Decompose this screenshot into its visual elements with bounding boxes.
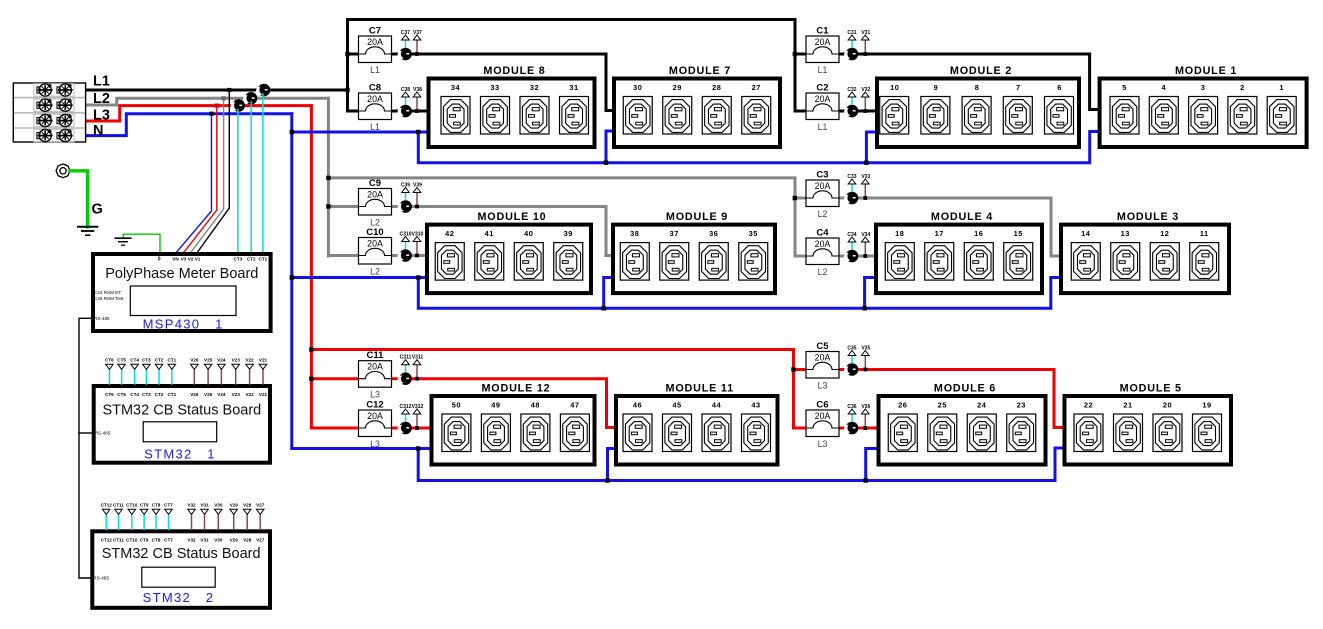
wire CT9 board2	[143, 515, 145, 530]
junction N bus module 2	[864, 161, 868, 165]
svg-text:27: 27	[752, 83, 761, 92]
svg-text:4: 4	[1161, 83, 1166, 92]
svg-text:32: 32	[530, 83, 539, 92]
svg-text:STM32 CB Status Board: STM32 CB Status Board	[102, 546, 261, 562]
outlet 28	[702, 83, 731, 134]
wire V21 board1	[262, 370, 264, 385]
svg-text:2: 2	[1240, 83, 1245, 92]
outlet 17	[925, 229, 954, 280]
outlet 26	[888, 400, 917, 451]
CT sensor on C4 output	[844, 250, 858, 263]
terminal screw L2 left	[37, 99, 53, 111]
svg-text:C1: C1	[816, 26, 829, 37]
outlet 39	[554, 229, 583, 280]
wire CT2 sense	[250, 102, 252, 253]
svg-text:V29: V29	[230, 537, 239, 542]
svg-text:STM32 CB Status Board: STM32 CB Status Board	[102, 403, 261, 419]
outlet 12	[1150, 229, 1179, 280]
svg-text:CT3: CT3	[142, 392, 151, 397]
junction V36 tap	[863, 426, 867, 430]
svg-text:C12: C12	[366, 400, 383, 411]
CT sensor on C5 output	[844, 363, 858, 376]
CT sensor on C8 output	[398, 105, 412, 118]
net label V26	[190, 358, 199, 370]
svg-text:L2: L2	[818, 209, 828, 219]
svg-text:V26: V26	[190, 392, 199, 397]
net label V38	[413, 87, 422, 97]
CT wire C33	[851, 184, 853, 192]
CT wire C310	[405, 242, 407, 250]
svg-text:V32: V32	[187, 537, 196, 542]
svg-text:L1: L1	[818, 65, 828, 75]
svg-text:V22: V22	[246, 358, 255, 363]
CT sensor on C12 output	[398, 422, 412, 435]
svg-text:20A: 20A	[367, 189, 383, 199]
CT wire C34	[851, 242, 853, 250]
svg-text:CT10: CT10	[126, 537, 138, 542]
junction N row1 tap	[290, 130, 294, 134]
voltage tap wire V35	[864, 356, 866, 370]
svg-text:CT8: CT8	[152, 503, 161, 508]
svg-text:V24: V24	[217, 392, 226, 397]
CT sensor on C11 output	[398, 372, 412, 385]
svg-text:20A: 20A	[367, 362, 383, 372]
svg-text:CT1: CT1	[259, 257, 268, 262]
wire L1 feeder rail to C1/C2	[348, 20, 796, 112]
outlet 40	[514, 229, 543, 280]
svg-text:MSP430 1: MSP430 1	[143, 317, 224, 332]
net label V30	[214, 503, 223, 515]
svg-text:C312: C312	[400, 404, 412, 410]
outlet 47	[560, 400, 589, 451]
outlet 34	[441, 83, 470, 134]
wire ground green	[70, 171, 88, 227]
svg-text:MODULE 5: MODULE 5	[1120, 383, 1182, 395]
voltage tap wire V33	[864, 184, 866, 198]
terminal block TB1 (mains input)	[13, 83, 85, 142]
svg-text:CT3: CT3	[234, 257, 243, 262]
wire V32 board2	[191, 515, 193, 530]
svg-text:MODULE 9: MODULE 9	[666, 211, 728, 223]
svg-text:MODULE 10: MODULE 10	[478, 211, 547, 223]
outlet 13	[1111, 229, 1140, 280]
junction V310 tap	[415, 254, 419, 258]
wire V30 board2	[217, 515, 219, 530]
junction V33 tap	[863, 196, 867, 200]
net label V32	[861, 87, 870, 97]
net label V24	[217, 358, 226, 370]
svg-text:MODULE 4: MODULE 4	[931, 211, 993, 223]
wire V31 board2	[204, 515, 206, 530]
net label CT4	[130, 358, 139, 370]
svg-text:V32: V32	[861, 87, 870, 93]
junction N row3 drop	[416, 446, 420, 450]
svg-text:37: 37	[670, 229, 679, 238]
junction C7 tap	[345, 52, 349, 56]
svg-text:L1: L1	[370, 122, 380, 132]
junction V2 tap on L2	[222, 96, 226, 100]
svg-text:5: 5	[1122, 83, 1127, 92]
svg-text:CT6: CT6	[105, 392, 114, 397]
svg-text:C7: C7	[369, 26, 381, 37]
svg-text:MODULE 1: MODULE 1	[1175, 65, 1237, 77]
net label V29	[230, 503, 239, 515]
net label CT6	[105, 358, 114, 370]
junction C11 tap	[309, 377, 313, 381]
outlet 3	[1189, 83, 1218, 134]
svg-text:RS-485: RS-485	[94, 316, 110, 321]
wire CT1 sense	[262, 94, 264, 253]
wire CT10 board2	[131, 515, 133, 530]
svg-text:MODULE 12: MODULE 12	[482, 383, 551, 395]
wire V29 board2	[233, 515, 235, 530]
wire V1 sense	[197, 90, 229, 253]
svg-text:V25: V25	[204, 358, 213, 363]
svg-text:C10: C10	[366, 227, 383, 238]
outlet 44	[702, 400, 731, 451]
svg-text:CT7: CT7	[164, 537, 173, 542]
svg-text:L2: L2	[818, 267, 828, 277]
net label V31	[200, 503, 209, 515]
svg-text:40: 40	[524, 229, 533, 238]
svg-text:CT9: CT9	[140, 503, 149, 508]
wire N row2 branch to MODULE 10	[292, 276, 428, 279]
svg-text:PolyPhase Meter Board: PolyPhase Meter Board	[105, 266, 258, 282]
net label V311	[412, 355, 424, 365]
wire C12 branch to MODULE 12	[311, 427, 432, 430]
voltage tap wire V312	[416, 414, 418, 428]
svg-text:C25 RSM Test: C25 RSM Test	[94, 296, 124, 301]
voltage tap wire V310	[416, 242, 418, 256]
net label V28	[243, 503, 252, 515]
svg-text:14: 14	[1081, 229, 1091, 238]
voltage tap wire V311	[416, 365, 418, 379]
net label C31	[847, 30, 856, 40]
svg-text:V27: V27	[256, 537, 265, 542]
net label C312	[400, 404, 412, 414]
svg-text:9: 9	[934, 83, 939, 92]
net label C37	[401, 30, 410, 40]
svg-text:V2: V2	[188, 257, 194, 262]
junction L2 rail tap	[326, 176, 330, 180]
wire RS-485 bus	[79, 318, 91, 578]
svg-text:34: 34	[451, 83, 461, 92]
svg-text:C39: C39	[401, 183, 410, 189]
wire CT11 board2	[118, 515, 120, 530]
board PolyPhase Meter Board (MSP430 1)	[93, 254, 271, 331]
net label C33	[847, 174, 856, 184]
wire VN sense	[176, 114, 212, 253]
wire N drop MODULE 11	[608, 449, 618, 481]
svg-text:20A: 20A	[367, 37, 383, 47]
svg-text:CT7: CT7	[164, 503, 173, 508]
svg-text:V22: V22	[246, 392, 255, 397]
CT wire C38	[405, 97, 407, 105]
svg-text:MODULE 7: MODULE 7	[669, 65, 731, 77]
outlet 14	[1071, 229, 1100, 280]
svg-text:17: 17	[935, 229, 944, 238]
outlet 27	[742, 83, 771, 134]
wire C1 branch to MODULE 1	[795, 54, 1100, 110]
junction N bus module 4	[862, 306, 866, 310]
wire CT5 board1	[121, 370, 123, 385]
circuit breaker C1 (20A, phase L1)	[806, 26, 839, 76]
svg-text:CT1: CT1	[167, 392, 176, 397]
svg-text:V31: V31	[200, 537, 209, 542]
wire CT8 board2	[155, 515, 157, 530]
svg-text:L3: L3	[818, 439, 828, 449]
module MODULE 3	[1061, 211, 1229, 293]
module MODULE 9	[613, 211, 775, 293]
wire N drop MODULE 7	[606, 131, 616, 163]
svg-text:20A: 20A	[815, 37, 831, 47]
wire CT7 board2	[168, 515, 170, 530]
svg-text:CT10: CT10	[126, 503, 138, 508]
CT sensor on C7 output	[398, 48, 412, 61]
STM32 2 component box	[142, 567, 215, 587]
net label C35	[847, 346, 856, 356]
svg-text:CT1: CT1	[167, 358, 176, 363]
wire C4 branch to MODULE 4	[795, 255, 877, 258]
svg-text:L1: L1	[818, 122, 828, 132]
svg-text:20: 20	[1163, 400, 1172, 409]
svg-text:CT4: CT4	[130, 358, 139, 363]
svg-text:C36: C36	[847, 404, 856, 410]
CT sensor on C6 output	[844, 422, 858, 435]
svg-text:C311: C311	[400, 355, 412, 361]
junction V31 tap	[863, 52, 867, 56]
terminal screw L3 right	[57, 115, 73, 127]
svg-text:13: 13	[1121, 229, 1130, 238]
svg-text:V26: V26	[190, 358, 199, 363]
svg-text:V21: V21	[259, 358, 268, 363]
wire CT6 board1	[108, 370, 110, 385]
net label C38	[401, 87, 410, 97]
outlet 7	[1003, 83, 1032, 134]
outlet 38	[620, 229, 649, 280]
svg-text:V30: V30	[214, 537, 223, 542]
wire meter ground	[123, 234, 160, 253]
wire C10 branch to MODULE 10	[328, 254, 428, 257]
terminal screw N right	[57, 130, 73, 142]
svg-text:29: 29	[673, 83, 682, 92]
svg-text:CT5: CT5	[117, 358, 126, 363]
circuit breaker C7 (20A, phase L1)	[359, 26, 392, 76]
svg-text:19: 19	[1202, 400, 1211, 409]
CT sensor on C1 output	[844, 48, 858, 61]
net label V31	[861, 30, 870, 40]
outlet 49	[481, 400, 510, 451]
circuit breaker C5 (20A, phase L3)	[806, 341, 839, 391]
voltage tap wire V34	[864, 242, 866, 256]
svg-text:CT11: CT11	[113, 503, 124, 508]
svg-text:L3: L3	[370, 390, 380, 400]
svg-text:C9: C9	[369, 178, 381, 189]
wire CT3 sense	[237, 110, 239, 253]
circuit breaker C3 (20A, phase L2)	[806, 170, 839, 220]
svg-text:CT9: CT9	[140, 537, 149, 542]
svg-text:RS-485: RS-485	[93, 576, 109, 581]
module MODULE 2	[877, 65, 1079, 147]
voltage tap wire V39	[416, 193, 418, 207]
svg-text:1: 1	[1279, 83, 1284, 92]
svg-text:L1: L1	[93, 74, 110, 90]
svg-text:C2: C2	[816, 83, 828, 94]
outlet 37	[660, 229, 689, 280]
svg-text:20A: 20A	[815, 411, 831, 421]
wire L2 bus from terminal	[66, 98, 328, 105]
svg-text:V31: V31	[861, 30, 870, 36]
junction V312 tap	[415, 426, 419, 430]
svg-text:V36: V36	[861, 404, 870, 410]
CT sensor CT2 on L2	[243, 92, 257, 105]
svg-text:CT8: CT8	[152, 537, 161, 542]
svg-text:50: 50	[452, 400, 461, 409]
wire V22 board1	[249, 370, 251, 385]
wire N drop MODULE 4	[865, 278, 877, 309]
outlet 8	[962, 83, 991, 134]
svg-text:7: 7	[1016, 83, 1021, 92]
outlet 11	[1190, 229, 1219, 280]
wire N row2 return bus	[418, 278, 1062, 309]
svg-text:MODULE 6: MODULE 6	[934, 383, 996, 395]
outlet 50	[442, 400, 471, 451]
svg-text:CT4: CT4	[130, 392, 139, 397]
svg-text:C3: C3	[816, 170, 828, 181]
outlet 45	[663, 400, 692, 451]
wire N drop MODULE 9	[604, 278, 615, 309]
svg-text:C8: C8	[369, 83, 381, 94]
svg-text:L3: L3	[93, 108, 110, 124]
wire C5 branch to MODULE 5	[794, 370, 1066, 428]
net label C34	[847, 232, 856, 242]
outlet 36	[699, 229, 728, 280]
svg-text:V1: V1	[195, 257, 201, 262]
module MODULE 10	[427, 211, 591, 293]
wire L3 vertical feeder	[310, 106, 313, 428]
svg-text:38: 38	[630, 229, 639, 238]
svg-text:CT11: CT11	[113, 537, 124, 542]
junction V311 tap	[415, 377, 419, 381]
svg-text:11: 11	[1200, 229, 1209, 238]
wire C9 branch to MODULE 9	[328, 207, 615, 256]
wire L3 feeder rail to C5/C6	[311, 350, 793, 429]
svg-text:20A: 20A	[815, 181, 831, 191]
junction N row2 drop	[416, 275, 420, 279]
svg-text:33: 33	[490, 83, 499, 92]
junction N bus module 11	[605, 478, 609, 482]
net label CT3	[142, 358, 151, 370]
svg-text:MODULE 2: MODULE 2	[950, 65, 1012, 77]
circuit breaker C4 (20A, phase L2)	[806, 228, 839, 278]
svg-text:V21: V21	[259, 392, 268, 397]
svg-text:42: 42	[445, 229, 454, 238]
svg-text:V29: V29	[230, 503, 239, 508]
wire C11 branch to MODULE 11	[311, 379, 617, 428]
svg-text:V24: V24	[217, 358, 226, 363]
svg-text:V31: V31	[200, 503, 209, 508]
wire L3 bus from terminal	[66, 106, 311, 121]
junction N bus module 7	[604, 161, 608, 165]
net label V35	[861, 346, 870, 356]
wire L2 vertical feeder	[327, 98, 330, 256]
junction C9 tap	[326, 204, 330, 208]
junction V3 tap on L3	[215, 104, 219, 108]
outlet 46	[623, 400, 652, 451]
CT sensor on C10 output	[398, 249, 412, 262]
svg-text:36: 36	[709, 229, 718, 238]
junction C3 tap	[793, 196, 797, 200]
wire V26 board1	[193, 370, 195, 385]
svg-text:C33: C33	[847, 174, 856, 180]
wire V2 sense	[191, 98, 224, 253]
svg-text:15: 15	[1014, 229, 1023, 238]
CT sensor CT1 on L1	[256, 84, 270, 97]
svg-text:L2: L2	[370, 218, 380, 228]
svg-text:16: 16	[974, 229, 983, 238]
outlet 23	[1007, 400, 1036, 451]
junction C5 tap	[791, 367, 795, 371]
svg-text:25: 25	[938, 400, 947, 409]
ground terminal screw	[56, 164, 70, 178]
net label C39	[401, 183, 410, 193]
svg-text:44: 44	[712, 400, 722, 409]
CT sensor on C9 output	[398, 200, 412, 213]
outlet 43	[742, 400, 771, 451]
svg-text:12: 12	[1160, 229, 1169, 238]
module MODULE 4	[876, 211, 1042, 293]
svg-text:V310: V310	[412, 232, 424, 238]
net label C36	[847, 404, 856, 414]
wire C7 branch to MODULE 7	[348, 54, 617, 111]
svg-text:CT3: CT3	[142, 358, 151, 363]
outlet 33	[481, 83, 510, 134]
svg-text:39: 39	[564, 229, 573, 238]
net label CT12	[101, 503, 113, 515]
svg-text:V28: V28	[243, 503, 252, 508]
svg-text:47: 47	[570, 400, 579, 409]
junction N bus module 9	[602, 306, 606, 310]
outlet 9	[921, 83, 950, 134]
outlet 19	[1193, 400, 1222, 451]
svg-text:V33: V33	[861, 174, 870, 180]
wire V25 board1	[207, 370, 209, 385]
junction N bus module 6	[864, 478, 868, 482]
svg-text:C6: C6	[816, 400, 828, 411]
junction V32 tap	[863, 109, 867, 113]
wire N row1 return bus	[418, 132, 1100, 163]
svg-text:3: 3	[1201, 83, 1206, 92]
outlet 29	[663, 83, 692, 134]
wire N drop MODULE 2	[866, 132, 878, 163]
outlet 35	[739, 229, 768, 280]
svg-text:V32: V32	[187, 503, 196, 508]
svg-text:V27: V27	[256, 503, 265, 508]
net label V21	[259, 358, 268, 370]
svg-text:20A: 20A	[815, 352, 831, 362]
svg-text:STM32 2: STM32 2	[143, 590, 215, 605]
circuit breaker C9 (20A, phase L2)	[359, 178, 392, 228]
ground symbol meter	[115, 238, 132, 245]
svg-text:V23: V23	[232, 358, 241, 363]
svg-text:RS-485: RS-485	[95, 431, 111, 436]
wire L2 feeder rail to C3/C4	[328, 178, 795, 256]
wire CT1 board1	[171, 370, 173, 385]
svg-text:C34: C34	[847, 232, 856, 238]
svg-text:22: 22	[1084, 400, 1093, 409]
svg-text:L2: L2	[93, 91, 110, 107]
svg-text:20A: 20A	[367, 94, 383, 104]
